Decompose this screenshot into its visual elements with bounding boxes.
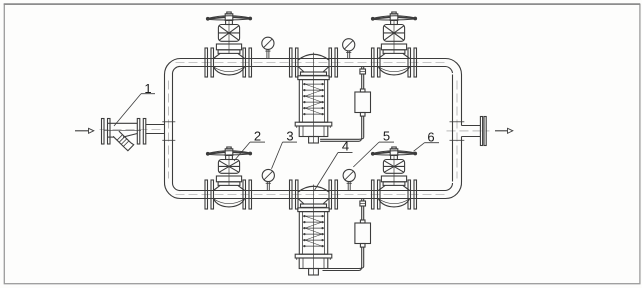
svg-text:3: 3 — [286, 129, 293, 144]
svg-text:2: 2 — [254, 129, 261, 144]
svg-text:5: 5 — [383, 129, 390, 144]
svg-text:4: 4 — [342, 139, 349, 154]
